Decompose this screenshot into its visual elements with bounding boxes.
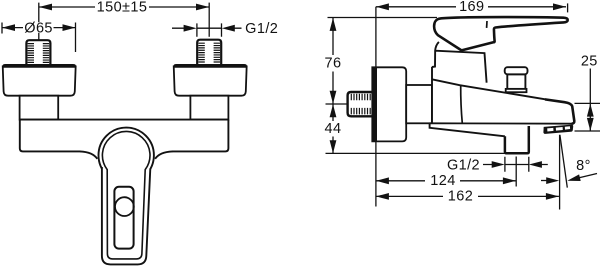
dim Ø65 line — [2, 27, 76, 29]
bath outlet stub — [505, 126, 529, 153]
dim 169 right extension tick — [567, 3, 569, 12]
svg-text:76: 76 — [325, 55, 342, 71]
mixer body and spout fill — [432, 79, 574, 124]
lever handle — [434, 17, 568, 50]
dim G1/2 (front view) lines and arrows — [172, 27, 242, 29]
dim Ø65 left arrow — [2, 24, 15, 31]
cartridge dome — [432, 42, 487, 83]
aerator (black) — [543, 125, 573, 134]
diverter knob body — [507, 74, 525, 89]
tick at pipe centre — [326, 103, 348, 105]
body/spout top edge — [432, 79, 546, 99]
spout underside edge — [430, 122, 573, 124]
body/spout section line — [461, 85, 463, 123]
center line right connector — [208, 3, 210, 37]
svg-text:Ø65: Ø65 — [24, 20, 53, 36]
dim 76/44 vertical line — [332, 18, 334, 153]
dim Ø65 right arrow — [63, 24, 76, 31]
svg-text:25: 25 — [581, 53, 598, 69]
dim 25 line — [589, 69, 591, 132]
body left edge — [431, 67, 433, 124]
svg-text:G1/2: G1/2 — [447, 158, 480, 174]
connector block (side) — [406, 85, 432, 123]
outlet centre line — [515, 157, 517, 187]
spout tip thick outline — [545, 99, 574, 123]
dim G1/2 extension lines — [197, 23, 222, 36]
handle shaft — [102, 167, 150, 264]
reference line at outlet bottom — [326, 152, 505, 154]
right connector block — [190, 96, 228, 120]
dim 25 arrows — [587, 104, 594, 117]
svg-text:G1/2: G1/2 — [245, 21, 278, 37]
body bottom lip and lower edge — [430, 123, 505, 136]
svg-text:8°: 8° — [576, 158, 591, 174]
diverter knob cap — [505, 67, 528, 74]
svg-text:150±15: 150±15 — [97, 0, 148, 16]
wall reference line — [375, 7, 377, 207]
dim 150±15 right arrow — [196, 4, 209, 11]
neck fillet left — [80, 151, 97, 158]
right escutcheon wall flange (thick) — [173, 64, 247, 68]
left connector block — [20, 96, 59, 120]
dim G1/2 (side) — [483, 164, 548, 166]
side escutcheon wall flange (thick) — [372, 67, 377, 141]
dim 162 — [376, 195, 559, 197]
mixer body bar — [20, 120, 229, 152]
svg-text:169: 169 — [459, 0, 484, 15]
dim 44 arrows — [330, 104, 337, 117]
neck fillet right — [155, 151, 172, 158]
right threaded tail piece — [197, 40, 221, 64]
side escutcheon body — [372, 67, 406, 141]
right escutcheon body — [174, 66, 247, 96]
dim G1/2 (side) extension lines — [505, 157, 529, 172]
handle top circle — [99, 128, 154, 183]
diverter knob flange — [506, 89, 527, 92]
svg-text:44: 44 — [325, 121, 342, 137]
dim 169 line — [376, 6, 566, 8]
dim 150±15 left arrow — [39, 4, 52, 11]
body bottom strip fill — [430, 123, 506, 136]
left threaded tail piece — [26, 40, 50, 64]
handle inlay circle — [115, 197, 134, 216]
lever separation tick — [486, 21, 488, 28]
8° vertical reference line — [559, 135, 561, 210]
handle inlay pill — [114, 187, 133, 249]
8° slanted line — [560, 135, 567, 188]
dim 25 ticks — [575, 103, 600, 131]
left escutcheon wall flange (thick) — [2, 64, 76, 68]
handle inner contour — [102, 131, 150, 258]
dim 150±15 line — [39, 6, 209, 8]
8° arrows — [541, 180, 550, 182]
svg-text:124: 124 — [430, 173, 455, 189]
tick at lever top — [328, 17, 438, 19]
wall pipe thread — [348, 92, 373, 116]
svg-text:162: 162 — [448, 189, 473, 205]
dim Ø65 extension lines — [2, 23, 76, 53]
center line left connector — [38, 3, 40, 41]
left escutcheon body — [3, 66, 76, 96]
dim 124 — [376, 180, 516, 182]
dim 76 arrows — [330, 18, 337, 31]
aerator slots — [547, 128, 553, 132]
